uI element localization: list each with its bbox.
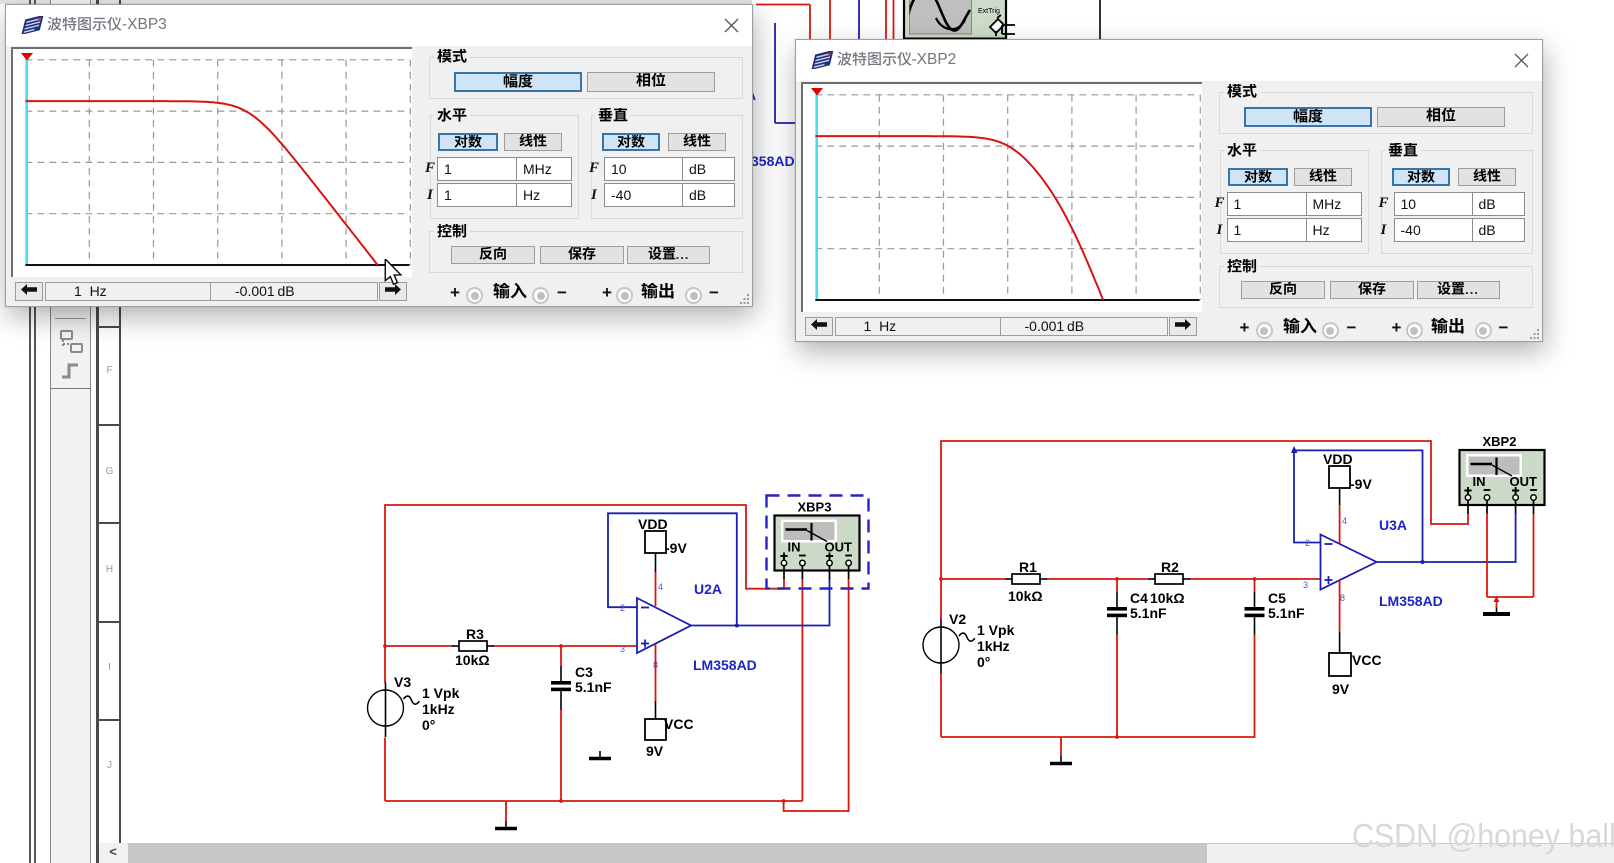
svg-text:10kΩ: 10kΩ <box>1150 590 1185 606</box>
svg-text:-9V: -9V <box>665 540 687 556</box>
svg-text:R1: R1 <box>1019 559 1037 575</box>
svg-text:0°: 0° <box>422 717 435 733</box>
svg-text:IN: IN <box>1473 474 1486 489</box>
svg-text:3: 3 <box>1303 580 1308 590</box>
svg-text:0°: 0° <box>977 654 990 670</box>
svg-text:VDD: VDD <box>1323 451 1353 467</box>
svg-text:OUT: OUT <box>1510 474 1538 489</box>
svg-text:C3: C3 <box>575 664 593 680</box>
svg-text:1 Vpk: 1 Vpk <box>422 685 460 701</box>
svg-text:ExtTrig: ExtTrig <box>978 8 1000 15</box>
svg-text:VDD: VDD <box>638 516 668 532</box>
svg-text:1 Vpk: 1 Vpk <box>977 622 1015 638</box>
svg-text:2: 2 <box>1305 538 1310 548</box>
svg-text:-9V: -9V <box>1350 476 1372 492</box>
svg-text:5.1nF: 5.1nF <box>1268 605 1305 621</box>
svg-text:R3: R3 <box>466 626 484 642</box>
svg-text:U2A: U2A <box>694 581 722 597</box>
svg-text:10kΩ: 10kΩ <box>455 652 490 668</box>
svg-text:V2: V2 <box>949 611 966 627</box>
svg-text:9V: 9V <box>646 743 664 759</box>
svg-text:1kHz: 1kHz <box>422 701 455 717</box>
svg-text:XBP3: XBP3 <box>798 500 832 515</box>
svg-text:4: 4 <box>1342 516 1347 526</box>
svg-text:10kΩ: 10kΩ <box>1008 588 1043 604</box>
svg-text:VCC: VCC <box>1352 652 1382 668</box>
svg-text:8: 8 <box>1340 593 1345 603</box>
svg-text:C4: C4 <box>1130 590 1148 606</box>
svg-text:LM358AD: LM358AD <box>693 657 757 673</box>
svg-text:VCC: VCC <box>664 716 694 732</box>
svg-text:C5: C5 <box>1268 590 1286 606</box>
svg-text:OUT: OUT <box>825 540 853 555</box>
svg-text:V3: V3 <box>394 674 411 690</box>
svg-text:1kHz: 1kHz <box>977 638 1010 654</box>
svg-text:4: 4 <box>658 582 663 592</box>
svg-text:IN: IN <box>788 540 801 555</box>
svg-text:5.1nF: 5.1nF <box>575 679 612 695</box>
svg-text:R2: R2 <box>1161 559 1179 575</box>
svg-text:3: 3 <box>620 644 625 654</box>
svg-text:5.1nF: 5.1nF <box>1130 605 1167 621</box>
svg-text:LM358AD: LM358AD <box>1379 593 1443 609</box>
svg-text:XBP2: XBP2 <box>1483 434 1517 449</box>
svg-text:358AD: 358AD <box>751 153 795 169</box>
svg-text:9V: 9V <box>1332 681 1350 697</box>
svg-text:U3A: U3A <box>1379 517 1407 533</box>
svg-text:2: 2 <box>620 603 625 613</box>
